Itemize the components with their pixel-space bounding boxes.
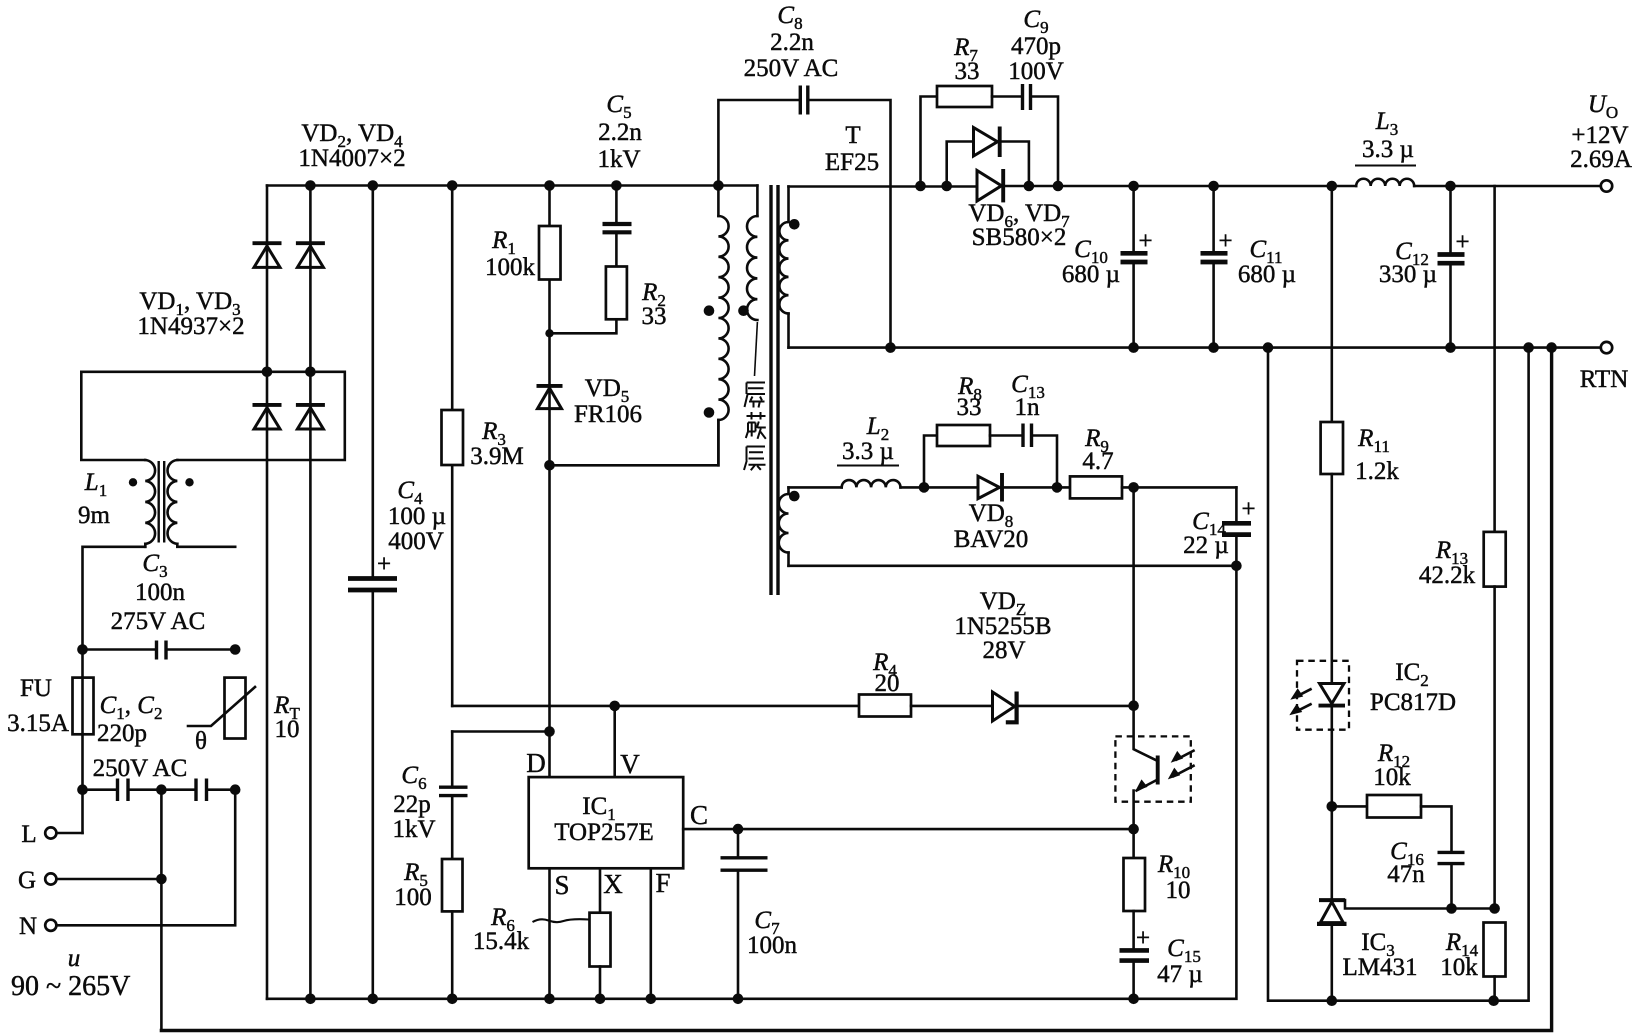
wire bridge left branch — [266, 186, 269, 999]
wire L to fuse rail — [57, 832, 83, 835]
svg-text:100V: 100V — [1008, 58, 1064, 85]
inductor L3 — [1327, 108, 1601, 191]
pin S — [550, 868, 570, 999]
svg-text:250V AC: 250V AC — [93, 755, 188, 782]
wire secondary top line — [789, 181, 979, 192]
capacitor C7 — [721, 829, 798, 999]
wire D node line — [452, 726, 555, 778]
svg-text:33: 33 — [642, 303, 667, 330]
node R12 — [1327, 801, 1338, 812]
capacitor C11 — [1201, 181, 1297, 348]
wire V-line R3 to R4 — [452, 701, 859, 712]
wire R9 node down — [1132, 487, 1135, 705]
svg-text:20: 20 — [875, 670, 900, 697]
diode VD2 — [253, 243, 282, 267]
svg-text:275V AC: 275V AC — [111, 608, 206, 635]
resistor R13 — [1419, 186, 1506, 909]
svg-text:10k: 10k — [1440, 954, 1478, 981]
capacitor C10 — [1062, 181, 1153, 348]
diode VD3 — [137, 288, 324, 429]
zener diode VDZ — [911, 588, 1134, 722]
svg-text:1N4937×2: 1N4937×2 — [137, 313, 244, 340]
svg-text:V: V — [620, 749, 640, 779]
resistor R12 — [1332, 740, 1452, 851]
svg-text:SB580×2: SB580×2 — [972, 224, 1067, 251]
resistor R8 — [924, 373, 990, 487]
transformer T shield winding — [738, 186, 757, 377]
svg-text:400V: 400V — [388, 528, 444, 555]
svg-text:1n: 1n — [1015, 394, 1041, 421]
svg-text:10k: 10k — [1373, 764, 1411, 791]
choke L1 right winding — [78, 460, 235, 547]
svg-text:680 µ: 680 µ — [1238, 261, 1296, 288]
feedback box left rail — [1263, 342, 1529, 1006]
shunt regulator IC3 LM431 — [1317, 806, 1500, 1000]
choke L1 left winding — [145, 460, 155, 547]
svg-text:15.4k: 15.4k — [473, 928, 530, 955]
svg-text:22p: 22p — [393, 791, 431, 818]
optocoupler phototransistor — [1115, 706, 1193, 829]
svg-text:33: 33 — [957, 394, 982, 421]
wire bottom primary bus — [267, 566, 1236, 1004]
svg-text:FR106: FR106 — [574, 401, 642, 428]
svg-text:L: L — [21, 821, 36, 848]
svg-text:47n: 47n — [1387, 861, 1425, 888]
svg-text:3.15A: 3.15A — [7, 710, 69, 737]
svg-text:C1, C2: C1, C2 — [100, 692, 163, 723]
capacitor C6 — [392, 732, 467, 860]
diode VD4 — [296, 120, 406, 267]
svg-text:100 µ: 100 µ — [388, 503, 446, 530]
svg-text:N: N — [19, 913, 37, 940]
svg-text:330 µ: 330 µ — [1379, 261, 1437, 288]
fuse FU — [7, 675, 93, 737]
svg-text:100k: 100k — [485, 254, 536, 281]
svg-text:28V: 28V — [982, 637, 1025, 664]
capacitor C8 — [718, 2, 895, 353]
svg-text:2.69A: 2.69A — [1570, 146, 1632, 173]
resistor R3 — [442, 186, 524, 706]
terminal N — [19, 913, 56, 940]
resistor R2 — [545, 267, 666, 338]
svg-text:42.2k: 42.2k — [1419, 562, 1476, 589]
svg-text:X: X — [603, 869, 623, 899]
capacitor C4 — [348, 186, 446, 999]
capacitor C1 — [83, 779, 195, 802]
terminal UO +12V — [1570, 91, 1632, 192]
diode VD7 — [977, 169, 1356, 202]
svg-text:3.3 µ: 3.3 µ — [1362, 136, 1414, 163]
wire G to earth node — [57, 874, 167, 885]
svg-text:100n: 100n — [135, 579, 186, 606]
svg-text:u: u — [68, 945, 81, 972]
diode VD8 — [924, 473, 1070, 553]
svg-text:220p: 220p — [97, 720, 147, 747]
capacitor C5 — [597, 91, 642, 267]
svg-text:10: 10 — [275, 716, 300, 743]
inductor L2 — [789, 413, 925, 487]
IC1 TOP257E box — [529, 777, 684, 868]
wire bridge right branch — [309, 186, 312, 999]
earth bottom line — [161, 342, 1556, 1030]
svg-text:θ: θ — [195, 728, 207, 755]
transformer T core — [771, 122, 879, 595]
svg-text:EF25: EF25 — [825, 149, 879, 176]
svg-text:1N5255B: 1N5255B — [954, 613, 1051, 640]
svg-text:+: + — [1218, 228, 1232, 255]
svg-text:100: 100 — [394, 884, 432, 911]
pin F — [651, 868, 671, 999]
svg-text:TOP257E: TOP257E — [554, 819, 654, 846]
svg-text:33: 33 — [955, 58, 980, 85]
svg-text:1kV: 1kV — [597, 146, 640, 173]
svg-text:LM431: LM431 — [1343, 954, 1418, 981]
terminal G — [18, 867, 56, 894]
node emitter — [1128, 824, 1139, 835]
resistor R14 — [1440, 923, 1505, 1001]
svg-text:2.2n: 2.2n — [770, 29, 814, 56]
svg-text:680 µ: 680 µ — [1062, 261, 1120, 288]
wire RTN bus — [789, 342, 1601, 353]
svg-text:4.7: 4.7 — [1082, 448, 1113, 475]
capacitor C2 — [93, 692, 236, 801]
svg-text:D: D — [526, 748, 546, 778]
svg-text:S: S — [554, 870, 569, 900]
pin C wire — [683, 800, 1133, 834]
svg-text:T: T — [845, 122, 860, 149]
terminal RTN — [1580, 342, 1629, 393]
capacitor C12 — [1379, 181, 1470, 348]
transformer T primary winding — [704, 186, 729, 466]
capacitor C16 — [1387, 838, 1464, 914]
svg-text:+: + — [1138, 228, 1152, 255]
svg-text:1kV: 1kV — [392, 816, 435, 843]
snubber R7 — [921, 34, 993, 186]
svg-text:470p: 470p — [1011, 33, 1061, 60]
resistor R11 — [1321, 186, 1400, 661]
svg-text:C: C — [690, 800, 708, 830]
svg-text:250V AC: 250V AC — [744, 55, 839, 82]
node VDZ optocoupler — [1128, 700, 1139, 711]
snubber C9 — [992, 6, 1064, 186]
capacitor C13 — [990, 371, 1062, 493]
svg-text:3.9M: 3.9M — [470, 443, 523, 470]
svg-text:47 µ: 47 µ — [1157, 961, 1203, 988]
capacitor C15 — [1120, 925, 1203, 999]
svg-text:+: + — [1241, 496, 1255, 523]
svg-text:1.2k: 1.2k — [1355, 458, 1399, 485]
pin X resistor R6 — [473, 868, 623, 999]
wire aux return — [789, 561, 1242, 572]
resistor R10 — [1124, 829, 1191, 948]
resistor R4 — [859, 649, 911, 717]
diode VD1 — [253, 405, 282, 429]
svg-text:BAV20: BAV20 — [954, 526, 1029, 553]
diode VD5 — [537, 333, 643, 777]
svg-text:10: 10 — [1166, 877, 1191, 904]
transformer T secondary winding — [779, 187, 799, 348]
node L2 VD8 — [919, 482, 930, 493]
wire V pin — [615, 706, 641, 779]
optocoupler LED IC2 — [1289, 659, 1456, 806]
svg-text:3.3 µ: 3.3 µ — [842, 438, 894, 465]
wire N to RT rail — [57, 790, 236, 926]
svg-text:F: F — [655, 868, 670, 898]
svg-text:RTN: RTN — [1580, 366, 1629, 393]
svg-text:1N4007×2: 1N4007×2 — [298, 145, 405, 172]
svg-text:G: G — [18, 867, 36, 894]
svg-text:22 µ: 22 µ — [1183, 532, 1229, 559]
label u 90~265V — [11, 945, 130, 1002]
svg-text:PC817D: PC817D — [1370, 689, 1456, 716]
wire top DC bus — [267, 180, 757, 191]
svg-text:+: + — [1455, 229, 1469, 256]
wire L1 tops to bridge AC line — [81, 367, 345, 461]
terminal L — [21, 821, 56, 848]
resistor R9 — [1070, 425, 1236, 498]
svg-text:+12V: +12V — [1571, 122, 1628, 149]
capacitor C14 — [1183, 487, 1255, 565]
diode VD6 — [947, 127, 1070, 252]
svg-text:+: + — [377, 551, 391, 578]
capacitor C3 — [77, 550, 240, 660]
resistor R5 — [394, 859, 462, 999]
node C1C2 mid to G — [77, 784, 240, 1030]
resistor R1 — [485, 186, 561, 334]
transformer T aux winding — [779, 487, 800, 565]
node D drain junction — [544, 420, 718, 471]
svg-text:+: + — [1136, 925, 1150, 952]
svg-text:2.2n: 2.2n — [598, 119, 642, 146]
label shield layer chinese — [744, 383, 766, 471]
svg-text:90 ~ 265V: 90 ~ 265V — [11, 971, 130, 1002]
svg-text:FU: FU — [20, 675, 52, 702]
svg-text:100n: 100n — [747, 932, 798, 959]
thermistor RT — [188, 678, 300, 755]
svg-text:9m: 9m — [78, 502, 111, 529]
choke L1 core — [159, 461, 165, 543]
wire fuse rail left — [83, 547, 146, 833]
